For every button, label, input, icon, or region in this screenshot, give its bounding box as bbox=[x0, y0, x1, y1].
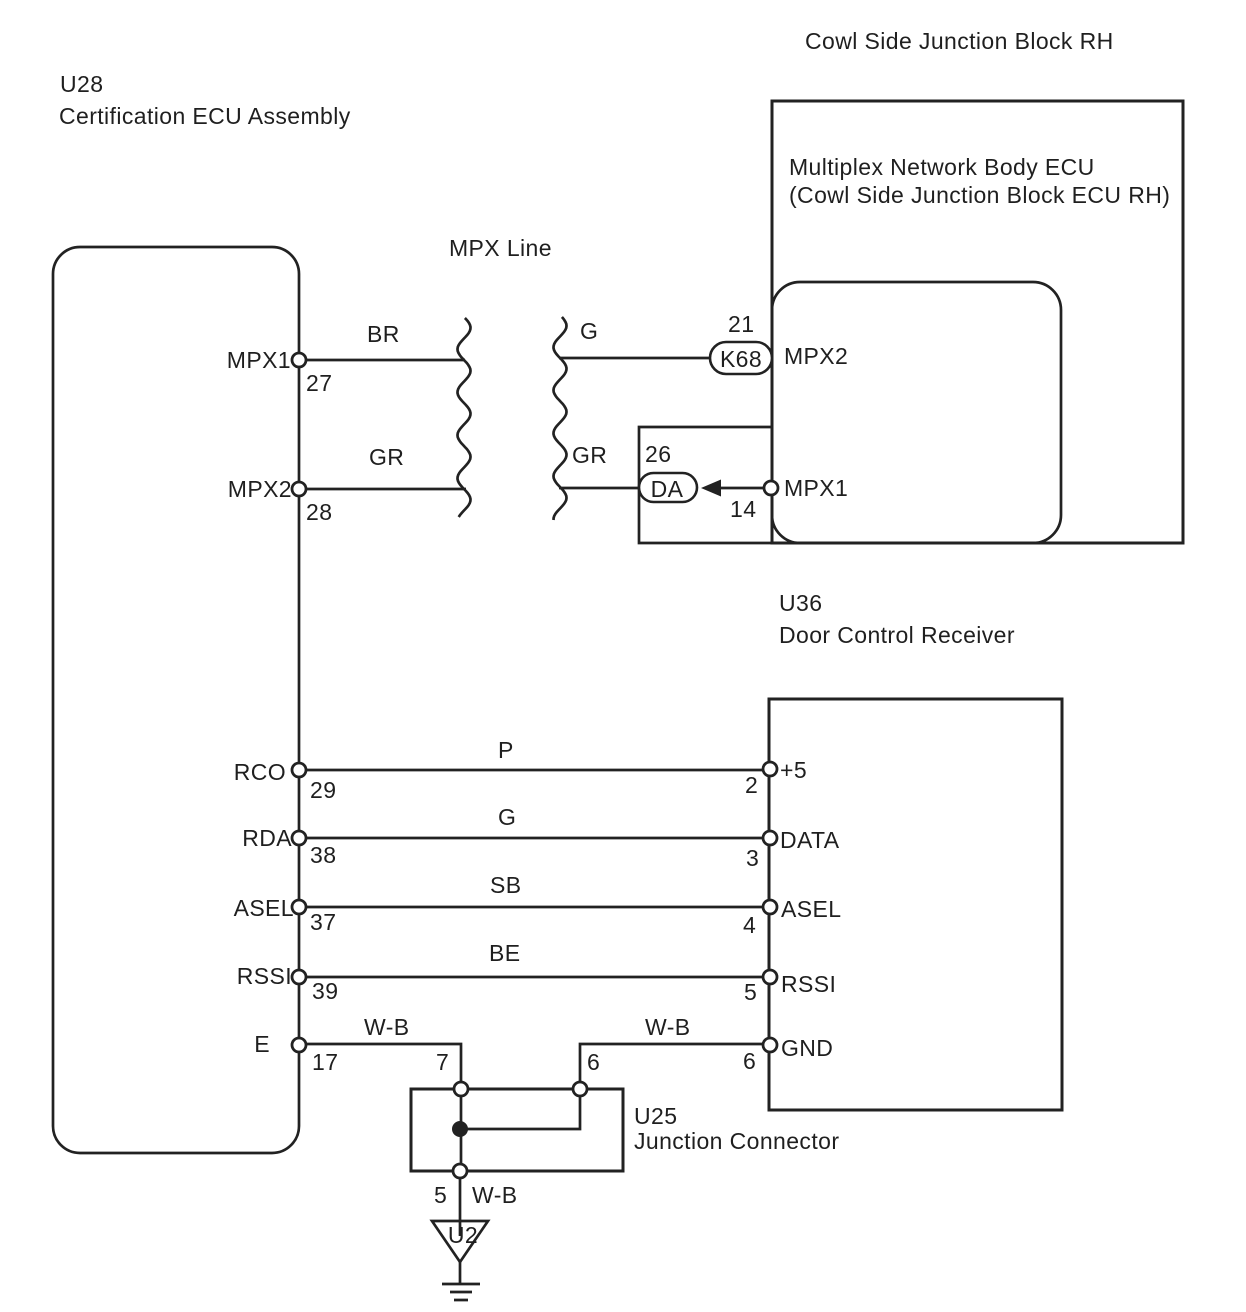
svg-text:6: 6 bbox=[743, 1048, 756, 1074]
wire E W-B down to junction bbox=[307, 1044, 461, 1082]
wire below junction to ground triangle bbox=[459, 1178, 462, 1236]
ground triangle U2 bbox=[432, 1221, 488, 1262]
svg-text:E: E bbox=[254, 1031, 270, 1057]
svg-text:U28: U28 bbox=[60, 71, 103, 97]
svg-text:W-B: W-B bbox=[364, 1014, 410, 1040]
svg-text:26: 26 bbox=[645, 441, 671, 467]
svg-text:ASEL: ASEL bbox=[234, 895, 294, 921]
svg-text:GR: GR bbox=[572, 442, 607, 468]
svg-text:3: 3 bbox=[746, 845, 759, 871]
wire G to K68 bbox=[559, 357, 711, 360]
junction solder dot bbox=[452, 1121, 468, 1137]
connector oval K68 bbox=[710, 342, 772, 374]
svg-text:Multiplex Network Body ECU: Multiplex Network Body ECU bbox=[789, 154, 1095, 180]
svg-text:14: 14 bbox=[730, 496, 756, 522]
svg-text:G: G bbox=[498, 804, 516, 830]
pin ASEL 37 bbox=[292, 900, 306, 914]
svg-text:Certification ECU Assembly: Certification ECU Assembly bbox=[59, 103, 351, 129]
svg-text:U36: U36 bbox=[779, 590, 822, 616]
junction internal vertical bbox=[460, 1096, 463, 1164]
wire RCO P bbox=[307, 769, 762, 772]
svg-text:GR: GR bbox=[369, 444, 404, 470]
connector box around DA bbox=[639, 427, 772, 543]
svg-text:MPX Line: MPX Line bbox=[449, 235, 552, 261]
svg-text:38: 38 bbox=[310, 842, 336, 868]
svg-text:28: 28 bbox=[306, 499, 332, 525]
svg-text:(Cowl Side Junction Block ECU: (Cowl Side Junction Block ECU RH) bbox=[789, 182, 1170, 208]
svg-text:BR: BR bbox=[367, 321, 400, 347]
twisted pair squiggle right bbox=[554, 317, 567, 520]
svg-text:Door Control Receiver: Door Control Receiver bbox=[779, 622, 1015, 648]
junction internal branch bbox=[466, 1096, 580, 1129]
svg-text:RCO: RCO bbox=[234, 759, 286, 785]
wire MPX2 GR bbox=[307, 488, 466, 491]
svg-text:ASEL: ASEL bbox=[781, 896, 841, 922]
connector oval DA bbox=[639, 473, 697, 502]
svg-text:4: 4 bbox=[743, 912, 756, 938]
pin MPX2 28 bbox=[292, 482, 306, 496]
wire RDA G bbox=[307, 837, 762, 840]
wire triangle to ground bbox=[459, 1262, 462, 1283]
svg-text:5: 5 bbox=[744, 979, 757, 1005]
svg-text:RDA: RDA bbox=[242, 825, 292, 851]
svg-text:P: P bbox=[498, 737, 514, 763]
svg-text:Cowl Side Junction Block RH: Cowl Side Junction Block RH bbox=[805, 28, 1114, 54]
svg-text:37: 37 bbox=[310, 909, 336, 935]
svg-text:MPX2: MPX2 bbox=[784, 343, 848, 369]
pin +5 2 bbox=[763, 762, 777, 776]
twisted pair squiggle left bbox=[458, 318, 471, 517]
wire arrow to MPX1 pin bbox=[720, 487, 765, 490]
svg-text:27: 27 bbox=[306, 370, 332, 396]
pin GND 6 bbox=[763, 1038, 777, 1052]
pin MPX1 27 bbox=[292, 353, 306, 367]
pin MPX1 14 bbox=[764, 481, 778, 495]
svg-text:RSSI: RSSI bbox=[781, 971, 836, 997]
pin RCO 29 bbox=[292, 763, 306, 777]
wire RSSI BE bbox=[307, 976, 762, 979]
wire GND W-B down to junction bbox=[580, 1044, 762, 1082]
junction pin 7 bbox=[454, 1082, 468, 1096]
pin E 17 bbox=[292, 1038, 306, 1052]
junction pin 6 bbox=[573, 1082, 587, 1096]
pin DATA 3 bbox=[763, 831, 777, 845]
junction pin 5 bbox=[453, 1164, 467, 1178]
svg-text:DATA: DATA bbox=[780, 827, 840, 853]
pin RSSI 39 bbox=[292, 970, 306, 984]
svg-text:+5: +5 bbox=[780, 757, 807, 783]
pin RDA 38 bbox=[292, 831, 306, 845]
ECU U28 Certification ECU Assembly box bbox=[53, 247, 299, 1153]
pin RSSI 5 bbox=[763, 970, 777, 984]
svg-text:Junction Connector: Junction Connector bbox=[634, 1128, 839, 1154]
wire GR to DA bbox=[559, 487, 640, 490]
svg-text:U25: U25 bbox=[634, 1103, 677, 1129]
arrow into DA bbox=[701, 480, 721, 497]
Cowl Side Junction Block outer box bbox=[772, 101, 1183, 543]
svg-text:W-B: W-B bbox=[472, 1182, 518, 1208]
svg-text:MPX2: MPX2 bbox=[228, 476, 292, 502]
svg-text:6: 6 bbox=[587, 1049, 600, 1075]
wire MPX1 BR bbox=[307, 359, 465, 362]
svg-text:U2: U2 bbox=[448, 1222, 478, 1248]
U36 Door Control Receiver box bbox=[769, 699, 1062, 1110]
svg-text:MPX1: MPX1 bbox=[227, 347, 291, 373]
svg-text:W-B: W-B bbox=[645, 1014, 691, 1040]
Multiplex Network Body ECU inner rounded box bbox=[772, 282, 1061, 543]
svg-text:7: 7 bbox=[436, 1049, 449, 1075]
svg-text:2: 2 bbox=[745, 772, 758, 798]
svg-text:29: 29 bbox=[310, 777, 336, 803]
svg-text:DA: DA bbox=[651, 476, 684, 502]
svg-text:21: 21 bbox=[728, 311, 754, 337]
svg-text:K68: K68 bbox=[720, 346, 762, 372]
svg-text:BE: BE bbox=[489, 940, 520, 966]
svg-text:GND: GND bbox=[781, 1035, 833, 1061]
svg-text:MPX1: MPX1 bbox=[784, 475, 848, 501]
svg-text:RSSI: RSSI bbox=[237, 963, 292, 989]
ground symbol bbox=[442, 1284, 480, 1300]
terminal circles bbox=[292, 342, 778, 1178]
svg-text:G: G bbox=[580, 318, 598, 344]
svg-text:5: 5 bbox=[434, 1182, 447, 1208]
pin ASEL 4 bbox=[763, 900, 777, 914]
svg-text:39: 39 bbox=[312, 978, 338, 1004]
svg-text:17: 17 bbox=[312, 1049, 338, 1075]
U25 junction connector box bbox=[411, 1089, 623, 1171]
wire ASEL SB bbox=[307, 906, 762, 909]
svg-text:SB: SB bbox=[490, 872, 521, 898]
